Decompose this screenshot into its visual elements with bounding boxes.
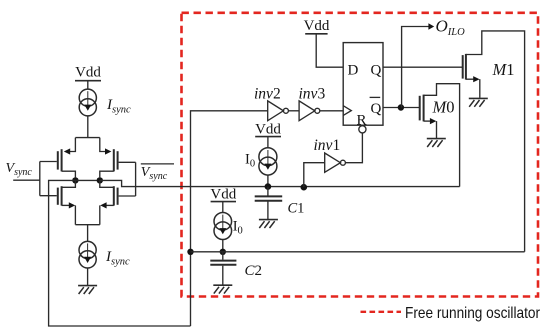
- wire Vdd to I0 (C2 branch): [222, 202, 224, 213]
- transistor bottom-left channel: [61, 186, 63, 205]
- label I0 (C1 branch): [245, 152, 255, 170]
- wire top-left drop with arrow: [67, 138, 76, 152]
- label C2: [245, 263, 263, 279]
- label Vdd (above D input): [304, 18, 330, 34]
- label M1: [492, 60, 515, 79]
- label Vsync: [6, 161, 33, 178]
- wire node to C2: [222, 252, 224, 260]
- wire M1 source with arrow: [466, 78, 474, 80]
- node inv1 input (junction on rail): [301, 184, 308, 191]
- wire bottom-right gate: [119, 195, 136, 197]
- svg-text:M1: M1: [492, 60, 515, 79]
- wire M1 drain loop to right rail: [466, 31, 525, 252]
- capacitor C1: [255, 196, 283, 200]
- wire Vdd to D input: [316, 34, 343, 67]
- node: mixer top bar: [75, 137, 99, 139]
- wire top-right drain to node: [100, 171, 114, 177]
- wire mixer bottom to Isync2: [87, 225, 89, 242]
- wire Q output to M1 gate: [383, 66, 463, 68]
- Vdd rail (top-left, above Isync): [75, 65, 101, 81]
- wire I0 to C2 node: [222, 240, 224, 252]
- wire I0 to C1 node: [267, 175, 269, 187]
- wire C2 to ground: [222, 266, 224, 285]
- node left junction: [72, 177, 78, 183]
- label M0: [432, 97, 455, 116]
- svg-text:Vsync: Vsync: [141, 165, 168, 182]
- reset bubble: [359, 126, 366, 133]
- transistor bottom-left gate: [57, 188, 59, 205]
- pin clock triangle: [343, 106, 351, 116]
- wire top-right gate: [119, 161, 136, 163]
- node: mixer bottom bar: [75, 224, 99, 226]
- label Vdd (above I0 for C1): [255, 122, 281, 138]
- wire C2 node rail to right side: [191, 251, 525, 253]
- pin Q: [371, 63, 382, 79]
- transistor top-left gate: [57, 151, 59, 169]
- svg-text:C1: C1: [288, 201, 305, 217]
- svg-text:Isync: Isync: [106, 97, 131, 116]
- svg-text:Free running oscillator: Free running oscillator: [405, 305, 541, 322]
- wire node to C1: [267, 187, 269, 196]
- svg-text:Q: Q: [371, 63, 382, 79]
- wire inv3 to clock input: [320, 110, 343, 112]
- pin R: [357, 112, 367, 128]
- ground (below Isync2): [78, 286, 97, 294]
- wire middle bar: [75, 179, 99, 181]
- wire Isync to mixer top: [87, 116, 89, 138]
- label Vdd (above I0 for C2): [210, 186, 236, 202]
- label C1: [288, 201, 305, 217]
- pin Q-bar: [371, 101, 382, 117]
- legend dashes: [361, 311, 402, 313]
- ground (below C2): [213, 285, 232, 293]
- wire Vdd to I0 (C1 branch): [267, 137, 269, 148]
- svg-text:M0: M0: [432, 97, 455, 116]
- svg-text:I0: I0: [233, 219, 243, 237]
- wire bottom rail up to C2 node and inv2 input: [191, 111, 268, 326]
- wire bottom-left source with arrow: [62, 204, 70, 206]
- wire O_ILO branch: [402, 27, 430, 108]
- wire M0 drain to C1 node rail: [424, 84, 460, 187]
- node on C2 rail (center): [220, 249, 226, 255]
- svg-text:Q: Q: [371, 101, 382, 117]
- inverter inv1: [325, 153, 346, 172]
- label inv1: [314, 137, 341, 154]
- wire feedback: left node to bottom rail: [49, 180, 191, 326]
- label O_ILO: [436, 16, 466, 38]
- wire Q-bar output to M0 gate: [383, 107, 420, 109]
- ground (below M0): [427, 139, 446, 147]
- svg-text:Vsync: Vsync: [6, 161, 33, 178]
- legend text: [405, 305, 541, 322]
- wire top-left gate: [40, 161, 57, 163]
- label Isync (top): [106, 97, 131, 116]
- svg-text:Vdd: Vdd: [75, 65, 101, 81]
- svg-text:Vdd: Vdd: [255, 122, 281, 138]
- wire Vsync stub: [13, 179, 40, 181]
- svg-text:inv1: inv1: [314, 137, 341, 154]
- current source I0 (C1 branch): [259, 148, 277, 175]
- wire bottom-left gate: [40, 195, 57, 197]
- current source Isync (bottom): [79, 241, 96, 268]
- wire Vsync-bar gate bus (right): [135, 162, 137, 196]
- inverter inv2: [268, 101, 289, 121]
- svg-text:I0: I0: [245, 152, 255, 170]
- svg-text:Vdd: Vdd: [304, 18, 330, 34]
- transistor bottom-right channel: [113, 186, 115, 205]
- svg-text:OILO: OILO: [436, 16, 466, 38]
- node right junction: [97, 177, 103, 183]
- svg-text:Isync: Isync: [105, 249, 130, 268]
- svg-text:D: D: [348, 63, 359, 79]
- inverter inv3: [299, 101, 320, 121]
- svg-text:inv3: inv3: [299, 86, 326, 103]
- wire Vsync gate bus: [39, 162, 41, 196]
- transistor top-right gate: [117, 151, 119, 169]
- svg-text:inv2: inv2: [254, 86, 281, 103]
- label inv3: [299, 86, 326, 103]
- transistor M1 gate: [462, 55, 464, 79]
- wire top-right drop with arrow: [100, 138, 109, 152]
- wire inv1 output to R: [345, 133, 362, 163]
- svg-text:C2: C2: [245, 263, 263, 279]
- wire inv2 to inv3: [288, 110, 299, 112]
- label inv2: [254, 86, 281, 103]
- wire bottom-right transistor top: [100, 180, 114, 187]
- wire C1 to ground: [267, 202, 269, 220]
- transistor top-left channel: [61, 149, 63, 171]
- wire inv1 input: [304, 163, 325, 187]
- red dashed boundary of free running oscillator: [182, 13, 539, 297]
- wire M0 source with arrow: [424, 120, 430, 122]
- current source I0 (C2 branch): [214, 213, 232, 240]
- wire Vdd to Isync current source: [87, 81, 89, 90]
- pin D: [348, 63, 359, 79]
- node on C2 rail (left): [187, 249, 193, 255]
- node on Q-bar wire: [398, 104, 404, 110]
- capacitor C2: [210, 261, 236, 265]
- transistor M0 channel: [423, 95, 425, 122]
- ground (below M1): [469, 98, 488, 106]
- wire bottom-left transistor top: [62, 180, 76, 187]
- current source Isync (top): [79, 89, 96, 116]
- transistor M0 gate: [419, 96, 421, 121]
- label I0 (C2 branch): [233, 219, 243, 237]
- transistor bottom-right gate: [117, 188, 119, 205]
- ground (below C1): [259, 220, 278, 228]
- label Isync (bottom): [105, 249, 130, 268]
- wire bottom-right source with arrow: [106, 204, 114, 206]
- transistor M1 channel: [465, 54, 467, 80]
- wire Vsync-bar horizontal to C1 node: [100, 180, 460, 186]
- wire top-left drain to node: [62, 171, 76, 177]
- transistor top-right channel: [113, 149, 115, 171]
- wire Isync2 to ground: [87, 268, 89, 285]
- node C1 (junction with Vsync-bar rail): [265, 183, 272, 190]
- label Vsync-bar: [141, 165, 168, 182]
- flip-flop U1 box: [343, 43, 383, 126]
- svg-text:Vdd: Vdd: [210, 186, 236, 202]
